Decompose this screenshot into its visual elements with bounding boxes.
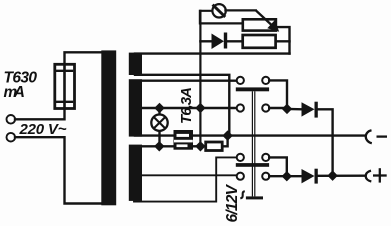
svg-text:220 V~: 220 V~: [19, 121, 67, 138]
svg-text:T6,3A: T6,3A: [178, 87, 195, 124]
svg-text:mA: mA: [4, 84, 26, 101]
svg-text:6/12V: 6/12V: [224, 183, 241, 222]
